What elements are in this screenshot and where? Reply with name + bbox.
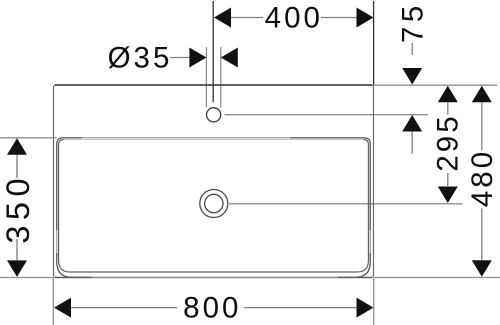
svg-text:75: 75 [396, 1, 429, 43]
svg-text:480: 480 [466, 149, 499, 207]
svg-text:800: 800 [183, 292, 241, 325]
svg-text:Ø35: Ø35 [108, 42, 173, 75]
svg-text:350: 350 [0, 173, 36, 244]
svg-text:295: 295 [431, 113, 464, 171]
svg-text:400: 400 [265, 1, 323, 34]
